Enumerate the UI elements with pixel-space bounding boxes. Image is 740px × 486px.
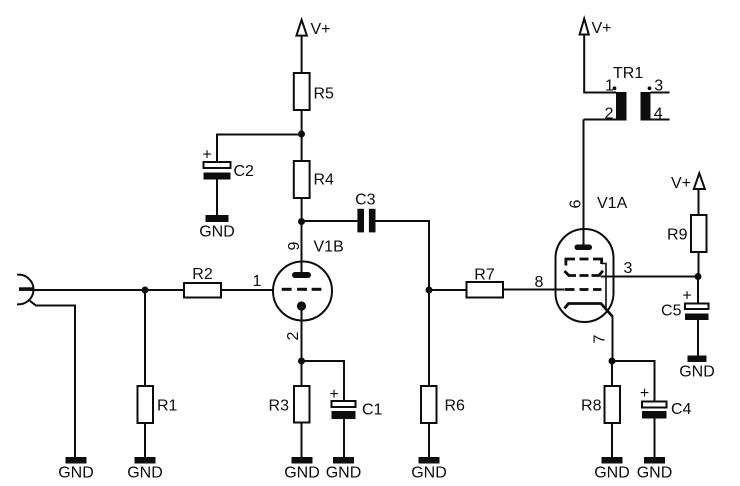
svg-text:V+: V+ (592, 20, 612, 37)
triode V1B envelope (273, 262, 332, 321)
resistor R5 (294, 73, 334, 110)
V1A plate (575, 245, 593, 251)
resistor R1 (138, 386, 178, 423)
wire R6 to ground (428, 423, 430, 457)
svg-text:2: 2 (285, 331, 302, 340)
wire node to R6 (428, 290, 430, 386)
capacitor C3 (355, 192, 376, 233)
ground (C5) (679, 356, 715, 381)
wire R4 to node (301, 198, 303, 222)
svg-text:GND: GND (284, 465, 320, 482)
svg-text:C3: C3 (355, 192, 376, 209)
wire V+ to R9 (698, 189, 700, 215)
svg-text:V1B: V1B (314, 239, 344, 256)
wire V1B plate to node (pin 9) (301, 222, 303, 273)
resistor R4 (294, 161, 334, 198)
input connector tip contact (19, 287, 33, 291)
svg-text:GND: GND (594, 465, 630, 482)
svg-text:C5: C5 (661, 303, 682, 320)
V1A grid g2 row (565, 271, 604, 276)
wire V1A plate to TR1 pin 6 lead (583, 120, 585, 245)
wire R5 to node (301, 110, 303, 134)
capacitor C1 (329, 386, 382, 419)
capacitor C2 (202, 147, 254, 181)
wire V+ to TR1 pin 1 (584, 35, 616, 93)
ground (R8) (594, 457, 630, 482)
V1B cathode (297, 301, 306, 310)
ground (R6) (411, 457, 447, 482)
svg-text:+: + (640, 385, 649, 402)
ground (R1) (127, 457, 163, 482)
resistor R7 (467, 267, 504, 298)
svg-text:GND: GND (637, 465, 673, 482)
svg-text:2: 2 (605, 106, 614, 123)
svg-text:C4: C4 (671, 401, 692, 418)
wire TR1 pin 3 stub (651, 92, 670, 94)
svg-text:8: 8 (535, 274, 544, 291)
svg-text:+: + (202, 147, 211, 164)
resistor R2 (184, 266, 221, 298)
wire R1 to ground (144, 423, 146, 457)
wire TR1 pin 4 stub (651, 119, 670, 121)
transformer TR1 secondary winding (641, 92, 651, 121)
svg-text:GND: GND (326, 465, 362, 482)
svg-text:R2: R2 (192, 266, 213, 283)
svg-text:R9: R9 (667, 227, 688, 244)
svg-text:GND: GND (127, 465, 163, 482)
wire R7 to V1A pin 8 (503, 289, 564, 291)
svg-text:R8: R8 (581, 398, 602, 415)
wire C5 to ground (697, 320, 699, 356)
ground (R3) (284, 457, 320, 482)
svg-text:GND: GND (58, 465, 94, 482)
TR1 polarity dot pin 1 (613, 86, 617, 90)
wire node to C1 (302, 361, 345, 401)
svg-text:+: + (682, 288, 691, 305)
capacitor C4 (640, 385, 692, 419)
svg-text:C2: C2 (234, 163, 255, 180)
wire input tip to R2 (30, 289, 184, 291)
resistor R3 (269, 386, 310, 423)
wire node to R3 (301, 361, 303, 386)
svg-text:TR1: TR1 (613, 65, 643, 82)
capacitor C5 (661, 288, 708, 321)
wire node to R4 (301, 134, 303, 161)
power V+ (R9 branch) (671, 173, 705, 192)
wire input sleeve to ground (30, 301, 75, 457)
svg-text:R4: R4 (314, 172, 335, 189)
svg-text:GND: GND (679, 364, 715, 381)
wire node to R8 (611, 361, 613, 386)
wire V+ to R5 (301, 36, 303, 73)
svg-text:C1: C1 (362, 402, 383, 419)
wire C3 to node (376, 221, 430, 290)
ground (input sleeve) (58, 457, 94, 482)
wire node to C5 (697, 277, 699, 304)
svg-text:GND: GND (199, 224, 235, 241)
wire node to C4 (612, 361, 655, 402)
wire R3 to ground (301, 423, 303, 458)
svg-text:V1A: V1A (597, 195, 628, 212)
V1B plate (292, 272, 311, 278)
wire C2 to ground (216, 180, 218, 216)
input connector J1 (17, 275, 34, 305)
ground (C2) (199, 215, 235, 241)
svg-text:R5: R5 (314, 86, 335, 103)
V1A g3 internal tie to cathode (602, 264, 606, 310)
wire node to C3 (302, 220, 358, 222)
svg-text:7: 7 (592, 334, 609, 343)
ground (C4) (637, 457, 673, 482)
svg-text:3: 3 (624, 260, 633, 277)
wire TR1 pin 2 to V1A plate (584, 119, 617, 121)
wire V1B cathode to node (pin 2) (301, 306, 303, 361)
V1A grid g3 row (566, 259, 602, 266)
V1A grid g1 row (565, 288, 602, 291)
V1A cathode (565, 304, 613, 317)
svg-text:R1: R1 (157, 398, 178, 415)
pentode V1A envelope (556, 229, 614, 322)
node input/R1 junction (142, 287, 149, 294)
TR1 polarity dot pin 3 (648, 86, 652, 90)
svg-text:R6: R6 (445, 398, 466, 415)
svg-text:R3: R3 (269, 398, 290, 415)
node C3/R6/R7 (426, 287, 433, 294)
node V1B cathode junction (298, 358, 305, 365)
power V+ (TR1 branch) (580, 19, 612, 37)
svg-text:9: 9 (286, 241, 303, 250)
wire V1A cathode pin 7 lead (612, 316, 614, 361)
wire V1A pin 3 (screen) to node (601, 276, 699, 278)
resistor R6 (421, 386, 465, 423)
wire C4 to ground (654, 419, 656, 458)
power V+ (R5 branch) (296, 20, 330, 38)
svg-text:+: + (329, 386, 338, 403)
node R9/C5/pin3 (695, 273, 702, 280)
svg-text:1: 1 (253, 273, 262, 290)
wire node to R7 (429, 289, 467, 291)
wire R2 to V1B pin 1 (221, 289, 273, 291)
svg-text:V+: V+ (311, 21, 331, 38)
node R5/R4/C2 (298, 131, 305, 138)
node V1A cathode junction (609, 358, 616, 365)
ground (C1) (326, 457, 362, 482)
resistor R8 (581, 386, 620, 423)
resistor R9 (667, 215, 706, 252)
svg-text:R7: R7 (474, 267, 495, 284)
wire C1 to ground (343, 419, 345, 457)
node R4/C3/pin9 (298, 218, 305, 225)
svg-text:6: 6 (568, 199, 585, 208)
svg-text:GND: GND (411, 465, 447, 482)
wire R9 to node (698, 252, 700, 277)
wire junction to R1 (144, 290, 146, 386)
wire R8 to ground (611, 423, 613, 457)
wire node to C2 (217, 135, 302, 163)
transformer TR1 primary winding (616, 92, 627, 121)
V1B grid dashes (282, 288, 322, 291)
svg-text:V+: V+ (671, 175, 691, 192)
